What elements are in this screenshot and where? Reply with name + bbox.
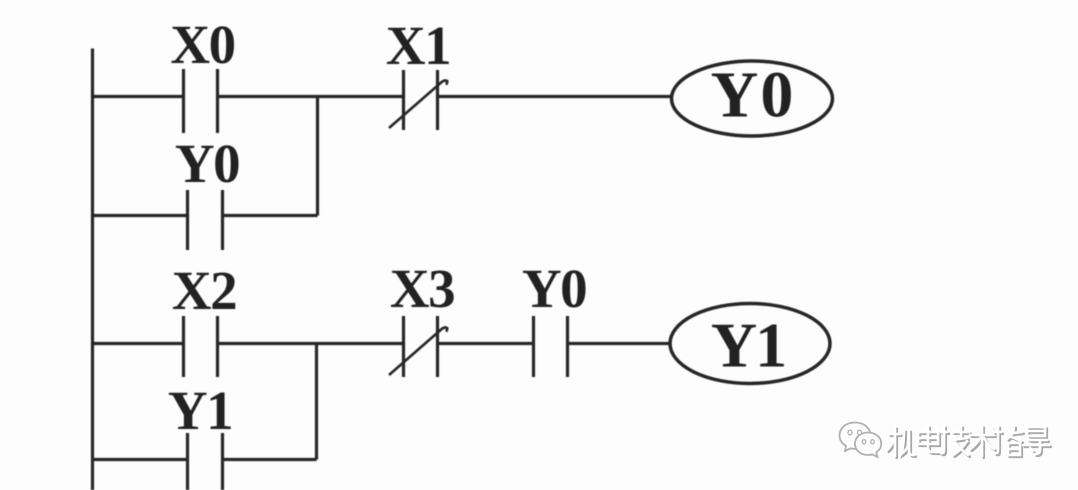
svg-text:X2: X2 [172,260,236,321]
svg-text:Y1: Y1 [168,380,232,441]
svg-text:Y0: Y0 [711,59,796,132]
svg-text:Y0: Y0 [522,258,586,319]
svg-text:Y0: Y0 [175,133,239,194]
svg-text:X3: X3 [390,258,454,319]
svg-text:Y1: Y1 [711,310,785,381]
svg-text:X0: X0 [170,14,234,75]
svg-text:X1: X1 [386,15,450,76]
